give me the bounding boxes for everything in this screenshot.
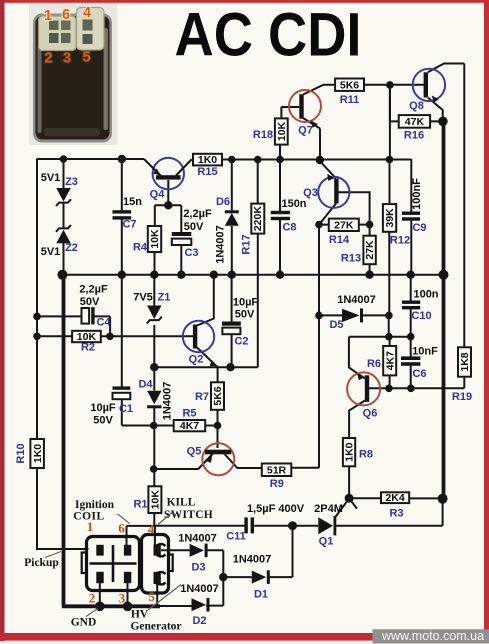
wire: kill line T to coil pins 6 and 4 xyxy=(127,526,155,546)
svg-text:D2: D2 xyxy=(192,615,206,627)
svg-text:C9: C9 xyxy=(412,222,426,234)
junction left rail / C4 lead xyxy=(33,313,41,321)
junction Q6 base / R6 bottom node xyxy=(385,385,393,393)
svg-text:R5: R5 xyxy=(182,408,196,420)
svg-text:COIL: COIL xyxy=(73,511,104,523)
svg-text:1K0: 1K0 xyxy=(32,444,44,463)
wire: R14 leads xyxy=(319,224,370,226)
pointer line HV Generator to pin 5 xyxy=(148,585,181,611)
wire: R11/Q8 node riser to top bus xyxy=(389,85,391,160)
svg-text:2: 2 xyxy=(44,51,52,67)
wire: Q6 emitter bus y336 xyxy=(349,336,411,338)
svg-text:1N4007: 1N4007 xyxy=(215,225,227,264)
wire: D6 branch vertical xyxy=(231,160,233,276)
capacitor C11 1.5uF 400V xyxy=(226,503,304,543)
junction D4 cathode / C1 / R5 node xyxy=(150,422,158,430)
wire: D5 node to Q6 emitter node xyxy=(388,315,390,336)
junction mid bus / C9-C10 branch xyxy=(407,271,415,279)
svg-text:6: 6 xyxy=(62,7,70,23)
junction mid bus / R4-Z1 branch xyxy=(150,271,158,279)
svg-text:R7: R7 xyxy=(195,391,209,403)
junction mid bus / C7-C1 branch xyxy=(118,271,126,279)
svg-text:27K: 27K xyxy=(334,219,354,231)
svg-text:50V: 50V xyxy=(184,221,204,233)
svg-text:5: 5 xyxy=(82,50,90,66)
junction mid bus / HV thick rail xyxy=(439,270,449,280)
resistor R4 10K xyxy=(133,226,161,254)
svg-text:D5: D5 xyxy=(329,319,343,331)
wire: R19 long right-side vertical xyxy=(463,64,465,389)
wire: Q4 base node xyxy=(155,180,182,205)
junction emitter bus / C2 bottom xyxy=(226,363,234,371)
wire: kill line / C11 / Q1 anode row xyxy=(127,525,319,527)
wire: thick ground rail vertical xyxy=(62,275,66,605)
svg-text:Q4: Q4 xyxy=(150,189,166,201)
svg-text:AC CDI: AC CDI xyxy=(175,1,362,69)
svg-text:27K: 27K xyxy=(364,240,376,260)
svg-text:2K4: 2K4 xyxy=(385,492,404,504)
junction dot D1/D2/D3 node xyxy=(219,573,227,581)
svg-text:47K: 47K xyxy=(405,116,425,128)
junction dot ground pin3 xyxy=(123,602,133,612)
transistor Q7 (red) xyxy=(289,90,321,137)
wire: R18 to Q7 base xyxy=(280,107,300,160)
capacitor C8 150n xyxy=(271,198,307,234)
CDI module photo xyxy=(29,3,117,145)
capacitor C2 10uF 50V electrolytic xyxy=(222,297,258,348)
wire: Z3/Z2 branch vertical xyxy=(63,159,65,276)
svg-text:10µF: 10µF xyxy=(233,297,259,309)
svg-text:R4: R4 xyxy=(133,242,148,254)
svg-text:R1: R1 xyxy=(133,499,147,511)
junction C6 bottom node xyxy=(407,385,415,393)
resistor R14 27K xyxy=(329,219,359,247)
wire: mid supply bus xyxy=(62,274,445,276)
resistor R19 1K8 xyxy=(452,347,472,403)
wire: R13 leads xyxy=(369,225,371,275)
svg-text:1N4007: 1N4007 xyxy=(233,554,272,566)
svg-text:Q1: Q1 xyxy=(319,536,334,548)
svg-text:C8: C8 xyxy=(282,222,296,234)
svg-text:10nF: 10nF xyxy=(412,346,438,358)
wire: emitter bus y367 xyxy=(154,366,230,368)
svg-text:220K: 220K xyxy=(252,206,264,232)
svg-text:4K7: 4K7 xyxy=(384,351,396,370)
wire: R2 row xyxy=(36,335,110,337)
junction mid bus / R13 branch xyxy=(365,271,373,279)
resistor R1 10K xyxy=(133,486,161,513)
wire: R11 to Q8 base xyxy=(364,84,424,86)
svg-text:R10: R10 xyxy=(15,443,27,463)
capacitor C7 15n xyxy=(113,196,143,231)
svg-text:1K0: 1K0 xyxy=(198,154,217,166)
resistor R8 1K0 xyxy=(343,438,373,466)
junction top bus / R12 riser xyxy=(386,156,394,164)
svg-text:Q8: Q8 xyxy=(409,100,424,112)
resistor R3 2K4 xyxy=(381,492,409,519)
wire: Q2 emitter diagonal xyxy=(197,348,218,368)
junction dot Q8 emitter / thick rail top xyxy=(438,117,448,127)
wire: Q8 emitter to thick rail top xyxy=(428,98,443,122)
junction mid bus / Q2 collector xyxy=(210,271,218,279)
junction top bus / Z3 branch xyxy=(60,155,68,163)
svg-text:3: 3 xyxy=(63,51,71,67)
wire: coil pin3 lead to ground bus xyxy=(127,583,129,605)
svg-text:150n: 150n xyxy=(281,198,306,210)
svg-text:R6: R6 xyxy=(367,358,381,370)
svg-text:C6: C6 xyxy=(412,368,426,380)
wire: C9/C10/C6 branch vertical xyxy=(410,159,413,388)
svg-text:1K8: 1K8 xyxy=(459,352,471,371)
wire: Z1/D4/R1 kill-switch branch vertical xyxy=(153,275,155,526)
junction dot Q1 gate node xyxy=(345,494,354,503)
svg-text:R9: R9 xyxy=(270,478,284,490)
wire: Q2 collector riser to mid bus xyxy=(197,275,214,326)
wire: R3 leads xyxy=(349,497,443,499)
transistor Q2 (blue) xyxy=(183,321,217,367)
svg-text:51R: 51R xyxy=(267,464,287,476)
svg-text:C4: C4 xyxy=(96,317,111,329)
resistor R16 47K xyxy=(399,115,430,142)
svg-text:R17: R17 xyxy=(241,234,253,254)
diode D4 1N4007 xyxy=(138,379,173,421)
resistor R6 4K7 xyxy=(367,346,396,375)
svg-text:4K7: 4K7 xyxy=(180,420,199,432)
svg-text:R11: R11 xyxy=(340,94,360,106)
svg-text:D3: D3 xyxy=(191,562,205,574)
wire: coil pin5 lead down xyxy=(156,584,158,605)
wire: Q6 base output row to R19 xyxy=(369,387,464,389)
wire: Q5 emitter to kill line node xyxy=(154,454,213,470)
junction top bus / Q7-Q3 emitters xyxy=(316,156,324,164)
resistor R10 1K0 xyxy=(15,439,44,468)
capacitor C6 10nF xyxy=(401,346,438,381)
svg-text:R8: R8 xyxy=(359,449,373,461)
wire: Q3 base riser xyxy=(338,192,369,224)
wire: thick HV rail vertical xyxy=(442,121,446,498)
resistor R15 1K0 xyxy=(193,154,222,178)
capacitor C3 2.2uF 50V electrolytic xyxy=(172,208,212,259)
svg-text:5: 5 xyxy=(149,589,156,604)
svg-text:C11: C11 xyxy=(226,531,246,543)
junction mid bus / C8 branch xyxy=(276,271,284,279)
svg-text:KILL: KILL xyxy=(167,497,196,509)
wire: C8 branch vertical xyxy=(279,160,281,276)
wire: Q3 emitter from top bus xyxy=(320,160,336,179)
junction D5 anode node xyxy=(315,312,323,320)
svg-text:1K0: 1K0 xyxy=(344,442,356,461)
wire: C2 branch vertical xyxy=(231,275,233,368)
svg-text:C7: C7 xyxy=(122,219,136,231)
ignition coil connector left block xyxy=(82,537,140,591)
wire: R6 leads xyxy=(389,337,391,389)
wire: R8 node to Q1 gate xyxy=(349,498,357,509)
wire: R16 leads xyxy=(390,85,443,122)
svg-text:100nF: 100nF xyxy=(411,178,423,210)
svg-text:3: 3 xyxy=(119,591,126,606)
svg-text:1N4007: 1N4007 xyxy=(180,583,219,595)
wire: C7/C1 branch vertical xyxy=(122,159,154,426)
svg-text:10K: 10K xyxy=(149,229,161,249)
svg-text:Q6: Q6 xyxy=(363,408,378,420)
resistor R11 5K6 xyxy=(335,79,364,107)
svg-text:Q3: Q3 xyxy=(303,187,318,199)
svg-text:Q2: Q2 xyxy=(189,354,204,366)
watermark bar www.moto.com.ua xyxy=(373,629,489,644)
zener Z2 5V1 xyxy=(41,225,78,258)
wire: R5 row xyxy=(154,425,218,427)
transistor Q6 (red) xyxy=(347,372,380,419)
capacitor C10 100n xyxy=(402,289,439,323)
svg-text:SWITCH: SWITCH xyxy=(164,509,213,521)
wire: R17 branch vertical xyxy=(230,160,258,368)
junction R5 / R7 / Q5 base node xyxy=(214,422,222,430)
diode D2 1N4007 xyxy=(180,583,219,627)
junction top bus / R17 branch xyxy=(254,156,262,164)
transistor Q8 (blue) xyxy=(409,69,445,112)
junction dot kill line / Q5 emitter xyxy=(150,465,158,473)
svg-text:Z2: Z2 xyxy=(65,242,78,254)
svg-text:C3: C3 xyxy=(184,247,198,259)
wire: D3 row from coil pin 4 xyxy=(161,550,223,577)
junction top bus / C8-R18 branch xyxy=(276,156,284,164)
junction mid bus / Z2 / ground rail xyxy=(57,270,67,280)
svg-text:R2: R2 xyxy=(81,342,95,354)
svg-text:1,5µF 400V: 1,5µF 400V xyxy=(247,503,305,515)
svg-text:2,2µF: 2,2µF xyxy=(183,208,212,220)
zener Z3 5V1 xyxy=(41,172,78,206)
wire: Q2 base row from R2/C4 node xyxy=(110,335,193,337)
transistor Q4 (blue) xyxy=(144,158,192,201)
junction dot R11/Q8 base node xyxy=(386,81,394,89)
svg-text:100n: 100n xyxy=(413,289,438,301)
junction dot Q4 base node xyxy=(164,201,172,209)
junction Q3 collector node xyxy=(315,221,323,229)
svg-text:D1: D1 xyxy=(254,589,268,601)
pointer line SWITCH to kill node xyxy=(158,513,172,525)
transistor Q5 (red) xyxy=(187,443,235,475)
svg-text:R12: R12 xyxy=(390,234,410,246)
junction Q6 emitter / R6 top node xyxy=(385,333,393,341)
svg-text:4: 4 xyxy=(83,5,91,21)
wire: Q7 collector to R11 xyxy=(303,85,335,95)
svg-text:R16: R16 xyxy=(404,130,424,142)
svg-text:Pickup: Pickup xyxy=(24,557,59,569)
capacitor C1 10uF 50V electrolytic xyxy=(90,386,133,426)
resistor R9 51R xyxy=(262,464,292,491)
svg-text:D4: D4 xyxy=(138,379,153,391)
wire: D1 row xyxy=(223,576,292,578)
svg-text:10µF: 10µF xyxy=(90,402,116,414)
svg-text:5K6: 5K6 xyxy=(212,386,224,405)
svg-text:R18: R18 xyxy=(253,129,273,141)
capacitor C9 100nF xyxy=(402,178,427,234)
wire: ground bus to D2 xyxy=(158,577,223,606)
wire: coil pin2 lead to ground bus xyxy=(99,583,101,605)
zener Z1 7V5 xyxy=(133,292,170,324)
svg-text:R3: R3 xyxy=(389,508,403,520)
wire: Q5 base lead xyxy=(217,426,219,449)
wire: HV rail to Q1 cathode xyxy=(336,499,443,526)
svg-text:R19: R19 xyxy=(452,391,472,403)
junction dot thick rail bottom xyxy=(438,494,448,504)
svg-text:15n: 15n xyxy=(123,196,142,208)
wire: Q3 collector/D5/R9 long riser xyxy=(291,225,319,468)
svg-text:50V: 50V xyxy=(93,415,113,427)
svg-text:1N4007: 1N4007 xyxy=(337,294,376,306)
junction dot C11/Q1/D1 node xyxy=(288,521,297,530)
svg-text:Ignition: Ignition xyxy=(75,499,115,511)
junction Q3 base / R14 / R13 node xyxy=(366,221,374,229)
junction dot ground pin2 xyxy=(95,602,105,612)
svg-text:Q7: Q7 xyxy=(298,125,313,137)
junction top bus / D6 branch xyxy=(228,156,236,164)
svg-text:Z1: Z1 xyxy=(158,292,171,304)
wire: pickup horizontal to coil xyxy=(36,548,89,550)
svg-text:10K: 10K xyxy=(150,490,162,510)
wire: C3 branch xyxy=(180,205,182,275)
diode D3 1N4007 xyxy=(178,533,217,574)
svg-text:7V5: 7V5 xyxy=(133,292,153,304)
svg-text:6: 6 xyxy=(118,521,125,536)
svg-text:2P4M: 2P4M xyxy=(314,503,343,515)
wire: Q8 collector up and over to R19 xyxy=(428,64,465,73)
junction mid bus / C3 branch xyxy=(177,271,185,279)
wire: R12 branch vertical (top bus to D5 node) xyxy=(388,160,390,316)
wire: thick ground bus horizontal xyxy=(62,604,160,608)
wire: Q7 emitter to top bus xyxy=(303,118,320,160)
junction D5 cathode / R12 node xyxy=(385,312,393,320)
capacitor C4 2.2uF 50V electrolytic horizontal xyxy=(79,284,111,329)
svg-text:C2: C2 xyxy=(234,336,248,348)
svg-text:R13: R13 xyxy=(341,253,361,265)
svg-text:50V: 50V xyxy=(80,296,100,308)
wire: D5 row xyxy=(319,314,389,316)
svg-text:39K: 39K xyxy=(384,208,396,228)
svg-text:50V: 50V xyxy=(235,309,255,321)
svg-text:C1: C1 xyxy=(119,403,133,415)
svg-text:2,2µF: 2,2µF xyxy=(79,284,108,296)
svg-text:C10: C10 xyxy=(411,310,431,322)
wire: Q6 collector to R8 xyxy=(349,401,365,499)
wire: top supply bus left segment xyxy=(37,158,144,160)
svg-text:4: 4 xyxy=(148,522,155,537)
svg-text:Q5: Q5 xyxy=(187,446,202,458)
svg-text:GND: GND xyxy=(71,617,97,629)
pointer line Pickup to wire xyxy=(45,552,61,558)
resistor R5 4K7 xyxy=(174,408,206,433)
wire: R4 branch xyxy=(154,205,156,275)
wire: left rail vertical xyxy=(36,159,38,551)
resistor R2 10K xyxy=(72,331,101,354)
pointer line GND to ground dot xyxy=(86,609,98,617)
svg-text:R15: R15 xyxy=(197,166,217,178)
wire: R7 branch vertical xyxy=(217,367,219,425)
wire: C4 row xyxy=(36,316,110,336)
junction mid bus / D6-C2 branch xyxy=(228,271,236,279)
junction C10 bottom / C6 top node xyxy=(407,333,415,341)
resistor R18 10K xyxy=(253,118,288,144)
svg-text:Generator: Generator xyxy=(130,621,181,633)
svg-text:5V1: 5V1 xyxy=(41,172,61,184)
svg-text:D6: D6 xyxy=(216,196,230,208)
diode D5 1N4007 xyxy=(329,294,375,331)
diode D1 1N4007 xyxy=(233,554,272,601)
svg-text:1N4007: 1N4007 xyxy=(178,533,217,545)
svg-text:Z3: Z3 xyxy=(65,176,78,188)
svg-text:10K: 10K xyxy=(276,121,288,141)
resistor R7 5K6 xyxy=(195,382,224,410)
junction emitter bus / Z1-D4 branch xyxy=(150,363,158,371)
wire: Q6 emitter lead xyxy=(349,337,365,379)
svg-text:2: 2 xyxy=(89,591,96,606)
svg-text:R14: R14 xyxy=(329,234,350,246)
thyristor Q1 2P4M xyxy=(314,500,348,548)
resistor R13 27K xyxy=(341,236,376,265)
svg-text:1N4007: 1N4007 xyxy=(162,382,174,421)
resistor R17 220K xyxy=(241,204,265,255)
wire: top supply bus right segment (R15 row to C9 corner) xyxy=(192,159,412,161)
pointer line COIL to pin 6 xyxy=(118,514,130,524)
wire: Q3 collector diagonal xyxy=(319,204,336,225)
svg-text:HV: HV xyxy=(131,609,149,621)
svg-text:5K6: 5K6 xyxy=(340,79,359,91)
transistor Q3 (blue) xyxy=(303,174,349,208)
resistor R12 39K xyxy=(383,204,410,246)
ignition coil connector right block xyxy=(142,535,173,594)
wire: D1 riser to Q1 row xyxy=(292,526,294,577)
junction left rail / R2 lead xyxy=(33,333,41,341)
junction top bus / C7 branch xyxy=(118,155,126,163)
diode D6 1N4007 xyxy=(215,196,239,264)
junction dot R2/C4 node xyxy=(106,333,114,341)
svg-text:5V1: 5V1 xyxy=(41,246,61,258)
svg-text:1: 1 xyxy=(44,8,52,24)
wire: Q5 collector to R9 xyxy=(224,454,262,469)
svg-text:www.moto.com.ua: www.moto.com.ua xyxy=(381,629,484,643)
